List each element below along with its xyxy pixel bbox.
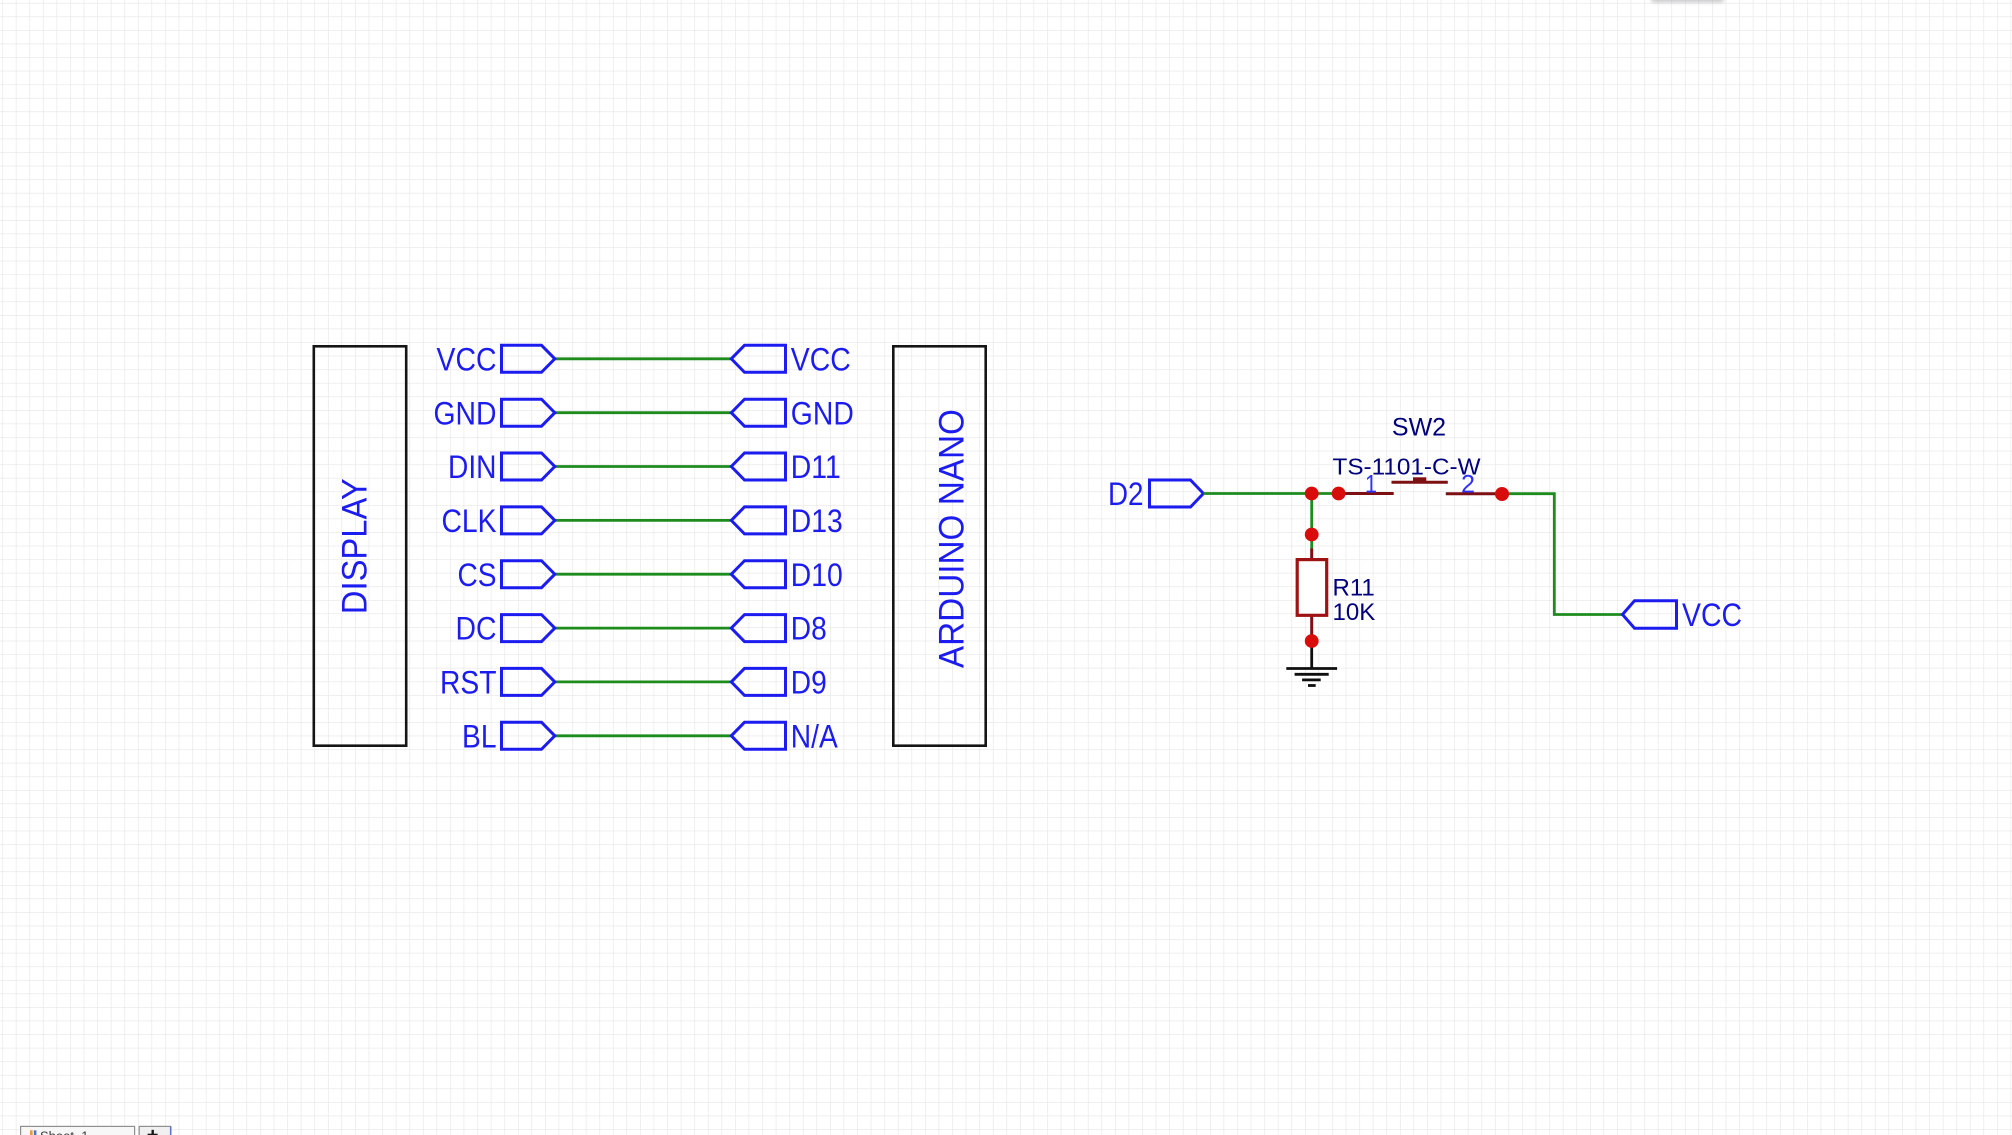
svg-text:TS-1101-C-W: TS-1101-C-W <box>1333 453 1482 479</box>
svg-text:D10: D10 <box>791 557 843 593</box>
svg-text:RST: RST <box>440 665 497 701</box>
svg-text:DIN: DIN <box>448 449 497 485</box>
svg-text:N/A: N/A <box>791 718 839 754</box>
svg-text:D2: D2 <box>1108 476 1144 512</box>
svg-text:VCC: VCC <box>791 341 851 377</box>
svg-text:D9: D9 <box>791 665 827 701</box>
svg-text:1: 1 <box>1365 471 1377 499</box>
svg-text:CS: CS <box>458 557 497 593</box>
svg-text:ARDUINO NANO: ARDUINO NANO <box>932 409 972 668</box>
svg-text:D8: D8 <box>791 611 827 647</box>
svg-text:GND: GND <box>434 395 497 431</box>
svg-text:D11: D11 <box>791 449 841 485</box>
svg-text:R11: R11 <box>1333 575 1375 602</box>
svg-text:2: 2 <box>1461 471 1475 499</box>
svg-text:VCC: VCC <box>1682 597 1742 633</box>
svg-text:DISPLAY: DISPLAY <box>335 478 375 614</box>
svg-text:GND: GND <box>791 395 854 431</box>
svg-text:VCC: VCC <box>437 341 497 377</box>
svg-text:D13: D13 <box>791 503 843 539</box>
svg-text:SW2: SW2 <box>1392 414 1446 442</box>
svg-text:DC: DC <box>456 611 497 647</box>
svg-text:Sheet_1: Sheet_1 <box>40 1129 88 1135</box>
svg-text:CLK: CLK <box>442 503 497 539</box>
svg-text:BL: BL <box>462 718 497 754</box>
svg-text:10K: 10K <box>1333 599 1376 626</box>
